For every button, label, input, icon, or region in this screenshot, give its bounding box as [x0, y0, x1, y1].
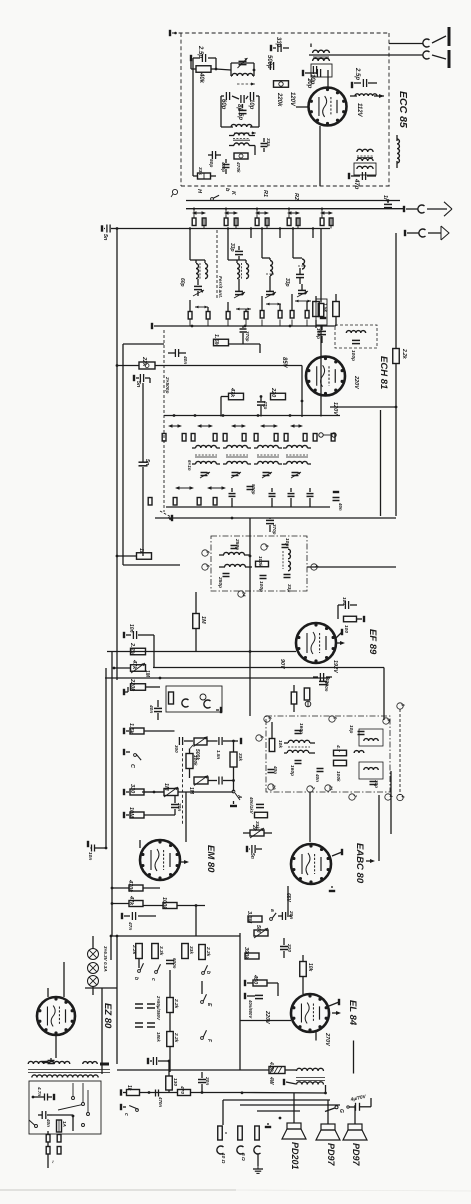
dial output jack	[404, 202, 452, 216]
tuner AVC bus	[152, 323, 336, 329]
pot 5M	[254, 925, 268, 938]
node	[260, 395, 263, 398]
switch C	[124, 749, 141, 769]
svg-text:100: 100	[341, 597, 347, 605]
svg-text:1M: 1M	[163, 783, 169, 791]
svg-text:20n: 20n	[176, 802, 182, 811]
svg-text:PD97: PD97	[326, 1143, 336, 1167]
capacitor 40n	[148, 700, 162, 720]
wire	[117, 365, 139, 367]
svg-text:600n: 600n	[172, 958, 177, 969]
switch plug	[274, 434, 278, 442]
svg-text:E: E	[206, 1003, 212, 1007]
wire	[220, 397, 222, 417]
voltage selector lines	[58, 1083, 88, 1113]
wire	[257, 1111, 300, 1125]
capacitor 40n	[333, 492, 344, 518]
svg-text:1k: 1k	[126, 1085, 132, 1091]
svg-text:10n: 10n	[87, 852, 93, 860]
wire drop	[279, 227, 281, 238]
wire	[308, 55, 310, 64]
capacitor 40n	[168, 349, 188, 364]
resistor 130	[166, 1061, 178, 1093]
capacitor 300	[174, 737, 193, 753]
svg-text:10p: 10p	[348, 725, 354, 733]
resistor 1k	[137, 548, 152, 559]
node	[153, 791, 156, 794]
node	[253, 69, 256, 72]
antenna input terminal	[170, 30, 177, 36]
wire	[193, 58, 221, 135]
pentode ECH81 tube circle U2	[306, 357, 345, 396]
resistor 390k	[243, 947, 259, 960]
resistor 220	[270, 387, 286, 400]
switch contact	[72, 1097, 75, 1100]
heater bus	[111, 935, 240, 937]
theta circle	[305, 701, 311, 707]
wire	[142, 383, 144, 556]
switch E	[201, 994, 212, 1007]
svg-text:33p: 33p	[275, 37, 281, 48]
wire rail	[239, 933, 241, 1070]
svg-text:22k: 22k	[141, 356, 147, 367]
svg-text:2.2k: 2.2k	[401, 348, 407, 359]
label ECC 85	[397, 91, 409, 128]
pentode EF89 tube circle U3	[296, 623, 336, 663]
resistor 330	[124, 784, 164, 795]
box edge	[380, 771, 391, 834]
triple diode triode EABC80 tube circle U5	[291, 844, 331, 884]
wire	[201, 981, 203, 1072]
det box coil	[359, 729, 383, 746]
resistor 2.2k	[199, 945, 211, 960]
speaker jack 5ohm	[237, 1126, 246, 1161]
loudspeaker PD97 b	[343, 1124, 367, 1140]
svg-text:10M: 10M	[128, 807, 134, 818]
triode ECC85 tube circle U1	[309, 88, 347, 126]
capacitor switch	[307, 488, 314, 507]
plug	[260, 296, 264, 318]
AM det dash-dot box	[266, 716, 390, 792]
resistor 40k	[191, 58, 216, 84]
wire	[301, 366, 304, 418]
svg-text:112V: 112V	[356, 103, 362, 118]
svg-text:470: 470	[179, 1085, 185, 1094]
node	[395, 406, 398, 409]
resistor 100k	[143, 897, 205, 941]
capacitor switch	[269, 488, 276, 507]
capacitor 30p	[370, 780, 380, 788]
wire	[123, 343, 164, 345]
svg-text:100p: 100p	[350, 350, 356, 361]
wire	[192, 135, 194, 176]
svg-text:K: K	[230, 191, 236, 196]
svg-text:Ferrit ant.: Ferrit ant.	[217, 276, 223, 298]
resistor 10k	[269, 739, 283, 752]
pin 11	[325, 785, 334, 791]
capacitor 10p	[248, 92, 254, 110]
wire	[114, 652, 131, 669]
voltage label 112V	[356, 103, 362, 118]
svg-text:10k: 10k	[277, 740, 283, 748]
fuse 1A	[57, 1120, 68, 1132]
wire drop	[189, 227, 191, 238]
svg-text:b: b	[205, 971, 211, 974]
svg-text:10 Ω: 10 Ω	[220, 1153, 226, 1164]
svg-text:220V: 220V	[353, 375, 359, 390]
resistor 33k	[193, 167, 216, 179]
svg-text:40n/1kV: 40n/1kV	[249, 796, 254, 815]
IF output transformer 2	[354, 163, 376, 175]
transformer secondary winding	[32, 1075, 98, 1078]
capacitor 40n	[42, 1058, 56, 1064]
voltage label 90V	[279, 659, 285, 670]
resistor	[291, 685, 297, 712]
svg-text:50p: 50p	[208, 159, 214, 167]
resistor 1M	[193, 592, 211, 652]
wire	[169, 970, 171, 1072]
transformer primary winding	[28, 1061, 70, 1064]
coupling arrow	[195, 306, 208, 309]
bus wire	[326, 1041, 354, 1074]
capacitor 500p	[266, 55, 274, 70]
oscillator dashed box	[335, 325, 377, 348]
switch contact	[82, 1124, 85, 1127]
wire	[221, 397, 322, 400]
svg-text:120V: 120V	[332, 402, 338, 416]
label EL 84	[347, 1000, 358, 1026]
wire	[143, 635, 154, 668]
svg-text:220: 220	[286, 943, 292, 952]
wire	[285, 886, 291, 915]
node	[387, 199, 390, 202]
node	[194, 414, 197, 417]
wire	[143, 378, 150, 383]
capacitor 2.5p	[191, 45, 216, 62]
resistor 3.3M	[246, 911, 262, 924]
capacitor 60p	[220, 92, 230, 110]
svg-text:47n: 47n	[127, 921, 133, 930]
terminal	[316, 317, 326, 319]
AM ant coil A	[190, 238, 208, 279]
terminal	[332, 849, 342, 856]
plug	[173, 498, 177, 506]
ratio coil	[283, 549, 290, 571]
capacitor 220	[280, 938, 292, 958]
wire	[242, 104, 244, 108]
plug	[278, 304, 282, 318]
IF det coil 2	[284, 750, 315, 753]
bus wire	[155, 517, 396, 519]
svg-text:33p: 33p	[284, 278, 290, 287]
svg-text:100p: 100p	[315, 328, 321, 339]
wave change arrow	[260, 424, 278, 428]
plug	[244, 309, 248, 319]
wave change arrow	[197, 424, 213, 428]
node	[105, 847, 108, 850]
svg-text:250p: 250p	[217, 576, 223, 588]
band switch plugs	[255, 209, 269, 229]
pin 9	[261, 544, 270, 550]
capacitor 10n	[87, 841, 106, 861]
svg-text:4W: 4W	[268, 1076, 274, 1086]
capacitor 1.5p	[237, 108, 247, 120]
dashed tuning arrow	[237, 83, 255, 86]
resistor 100	[338, 605, 364, 633]
phono pin	[169, 692, 174, 704]
capacitor 40n	[38, 1111, 52, 1127]
switch label b	[224, 188, 230, 192]
svg-text:160p: 160p	[298, 723, 304, 734]
svg-text:1.5M: 1.5M	[213, 334, 219, 347]
svg-text:G: G	[338, 1109, 344, 1113]
wire riser	[216, 126, 320, 201]
node	[241, 1091, 244, 1094]
switch plug	[303, 434, 307, 442]
svg-text:11: 11	[329, 786, 334, 791]
svg-text:4.7n: 4.7n	[37, 1086, 42, 1096]
vertical resistor	[333, 294, 340, 326]
pot 1M	[142, 783, 234, 797]
resistor 47k	[229, 387, 244, 400]
mains plug pin 2	[46, 1142, 50, 1154]
capacitor 33p	[284, 268, 304, 287]
dashed ferrite rod	[216, 230, 218, 300]
svg-text:5 Ω: 5 Ω	[240, 1153, 246, 1161]
svg-text:10p: 10p	[248, 99, 254, 110]
resistor 47k	[111, 895, 143, 907]
resistor 220k	[124, 678, 146, 695]
band switch plugs	[287, 209, 300, 229]
heater rail 2	[101, 988, 103, 1074]
heater rail	[116, 936, 118, 1064]
AM coil D	[293, 238, 306, 269]
switch c	[150, 964, 161, 981]
right rail	[395, 233, 397, 516]
oscillator coil	[346, 331, 365, 333]
connector circles	[319, 433, 336, 437]
resistor 1.5M	[213, 334, 229, 347]
svg-text:H: H	[196, 189, 202, 194]
switch c2	[121, 1104, 138, 1116]
FM tuned circuit coil	[231, 70, 254, 76]
node	[257, 414, 260, 417]
svg-text:330: 330	[129, 784, 135, 793]
detector coil	[219, 552, 250, 555]
band switch unit	[255, 211, 269, 215]
arrow	[366, 859, 375, 863]
switch plug	[182, 434, 186, 442]
capacitor 10p	[303, 69, 321, 89]
bus wire	[240, 1020, 291, 1022]
label 180k	[156, 1032, 161, 1042]
FM tuned circuit trimmer	[231, 58, 254, 80]
svg-text:400p: 400p	[221, 161, 226, 172]
capacitor 33p	[229, 243, 243, 260]
band switch unit	[192, 211, 206, 215]
svg-text:47k: 47k	[128, 895, 134, 906]
wire	[272, 722, 334, 753]
svg-text:ECC 85: ECC 85	[397, 91, 409, 128]
wire	[327, 1100, 329, 1124]
pin 6	[202, 550, 211, 556]
phono circle	[200, 694, 206, 700]
arrow	[374, 94, 384, 98]
svg-text:100k: 100k	[335, 771, 341, 782]
IF det coil	[284, 740, 315, 747]
wire drop	[312, 227, 314, 238]
wave change arrow	[290, 424, 303, 428]
resistor 100k	[186, 745, 198, 778]
dial lamp 1	[88, 949, 99, 960]
wire	[311, 44, 389, 48]
svg-text:3.3k: 3.3k	[158, 946, 164, 956]
capacitor 10p	[309, 66, 317, 85]
capacitor 10p	[282, 538, 291, 548]
pin 6b	[202, 564, 211, 570]
label EABC 80	[354, 843, 365, 884]
capacitor 47n	[122, 906, 156, 931]
wire	[316, 1031, 354, 1041]
capacitor 47p	[349, 172, 376, 190]
switch plug	[191, 434, 195, 442]
terminal	[265, 1123, 271, 1127]
svg-text:c: c	[150, 978, 156, 981]
wire drop	[261, 227, 263, 238]
det coil small	[354, 751, 364, 753]
left rail	[116, 229, 118, 681]
svg-text:47p: 47p	[262, 400, 268, 409]
svg-text:5n: 5n	[249, 853, 255, 859]
band switch unit	[320, 211, 333, 215]
phono jack 2	[204, 700, 211, 708]
switch plug	[284, 434, 288, 442]
AM coil C	[262, 238, 274, 276]
svg-text:100k: 100k	[161, 897, 167, 910]
coupling arrow	[266, 303, 281, 306]
resistor 2.2k	[167, 998, 179, 1013]
svg-text:R1: R1	[262, 190, 268, 197]
switch plug	[242, 434, 246, 442]
band switch unit	[224, 211, 238, 215]
plug	[290, 294, 294, 318]
speaker jack 10ohm	[217, 1126, 226, 1164]
dashed tuning gang line	[163, 330, 165, 512]
svg-text:4.7: 4.7	[335, 744, 341, 752]
node	[116, 555, 119, 558]
label EF 89	[367, 629, 378, 655]
speaker jack gnd	[253, 1126, 263, 1173]
terminal	[336, 619, 342, 638]
voltage label 85V	[281, 357, 287, 369]
output transformer core	[296, 1078, 325, 1081]
label EZ 80	[102, 1003, 113, 1029]
capacitor 40n	[268, 765, 279, 774]
resistor 2.2k	[131, 944, 142, 959]
wire	[216, 69, 231, 70]
dashed FM box right edge	[388, 33, 390, 186]
resistor 33k	[230, 741, 243, 791]
resistor	[304, 677, 310, 700]
right dashed rail	[399, 709, 401, 795]
svg-text:10n: 10n	[128, 624, 134, 633]
FM coupling transformer	[313, 50, 330, 61]
wave change arrow	[207, 486, 226, 490]
voltage label 220V	[353, 375, 359, 390]
svg-text:2×500p: 2×500p	[164, 376, 170, 393]
wire EZ80 top	[48, 988, 64, 997]
svg-text:b: b	[133, 977, 139, 980]
svg-text:a: a	[269, 909, 275, 912]
svg-text:c: c	[123, 1113, 129, 1116]
left rail 4	[105, 668, 107, 848]
band switch plugs	[320, 209, 333, 229]
svg-text:47k: 47k	[229, 387, 235, 398]
svg-text:450: 450	[252, 974, 258, 984]
voltage label 120V	[289, 92, 295, 107]
plug	[305, 301, 309, 318]
svg-text:10k: 10k	[307, 963, 313, 972]
node	[215, 68, 218, 71]
switch contact	[82, 1103, 85, 1106]
pin 7	[307, 786, 316, 792]
detector coil 2	[219, 564, 252, 567]
svg-text:33p: 33p	[286, 584, 292, 592]
terminal	[240, 738, 242, 744]
pin 14	[238, 591, 247, 597]
svg-text:65V: 65V	[285, 893, 291, 903]
resistor 33k	[182, 944, 194, 959]
IF trimmer	[231, 472, 241, 478]
pin 7	[349, 794, 358, 800]
switch contact	[87, 1113, 90, 1116]
wire	[249, 518, 252, 716]
label PD201	[290, 1142, 300, 1170]
transformer aux winding	[83, 1062, 97, 1064]
capacitor 100p	[315, 325, 326, 343]
wire drop	[227, 227, 229, 238]
output transformer primary	[297, 1068, 324, 1071]
svg-text:2.5p: 2.5p	[197, 45, 203, 58]
dashed shield line	[182, 748, 184, 825]
resistor 47k	[131, 659, 146, 671]
capacitor 5n	[134, 374, 150, 388]
node	[289, 414, 292, 417]
capacitor 33p	[261, 138, 272, 152]
svg-text:2.2k: 2.2k	[131, 944, 137, 955]
pot 1M B	[188, 776, 217, 795]
IF trimmer	[291, 472, 301, 478]
capacitor 500p	[247, 484, 257, 495]
svg-text:20n: 20n	[204, 1076, 210, 1085]
svg-text:47k: 47k	[131, 659, 137, 670]
pin 9	[383, 718, 392, 724]
terminal	[329, 999, 339, 1006]
label lamps	[103, 946, 108, 972]
pin 6	[256, 735, 265, 741]
svg-text:1.5k: 1.5k	[323, 303, 328, 312]
plug	[188, 300, 192, 319]
node	[222, 414, 225, 417]
pin 4	[385, 794, 394, 800]
wave change arrow	[168, 424, 182, 428]
svg-text:40k: 40k	[198, 72, 204, 84]
switch contact	[211, 195, 219, 200]
mains plug pin 2	[57, 1142, 61, 1154]
wire drop	[250, 227, 252, 238]
svg-text:PD201: PD201	[290, 1142, 300, 1170]
svg-text:ECH 81: ECH 81	[378, 356, 389, 389]
